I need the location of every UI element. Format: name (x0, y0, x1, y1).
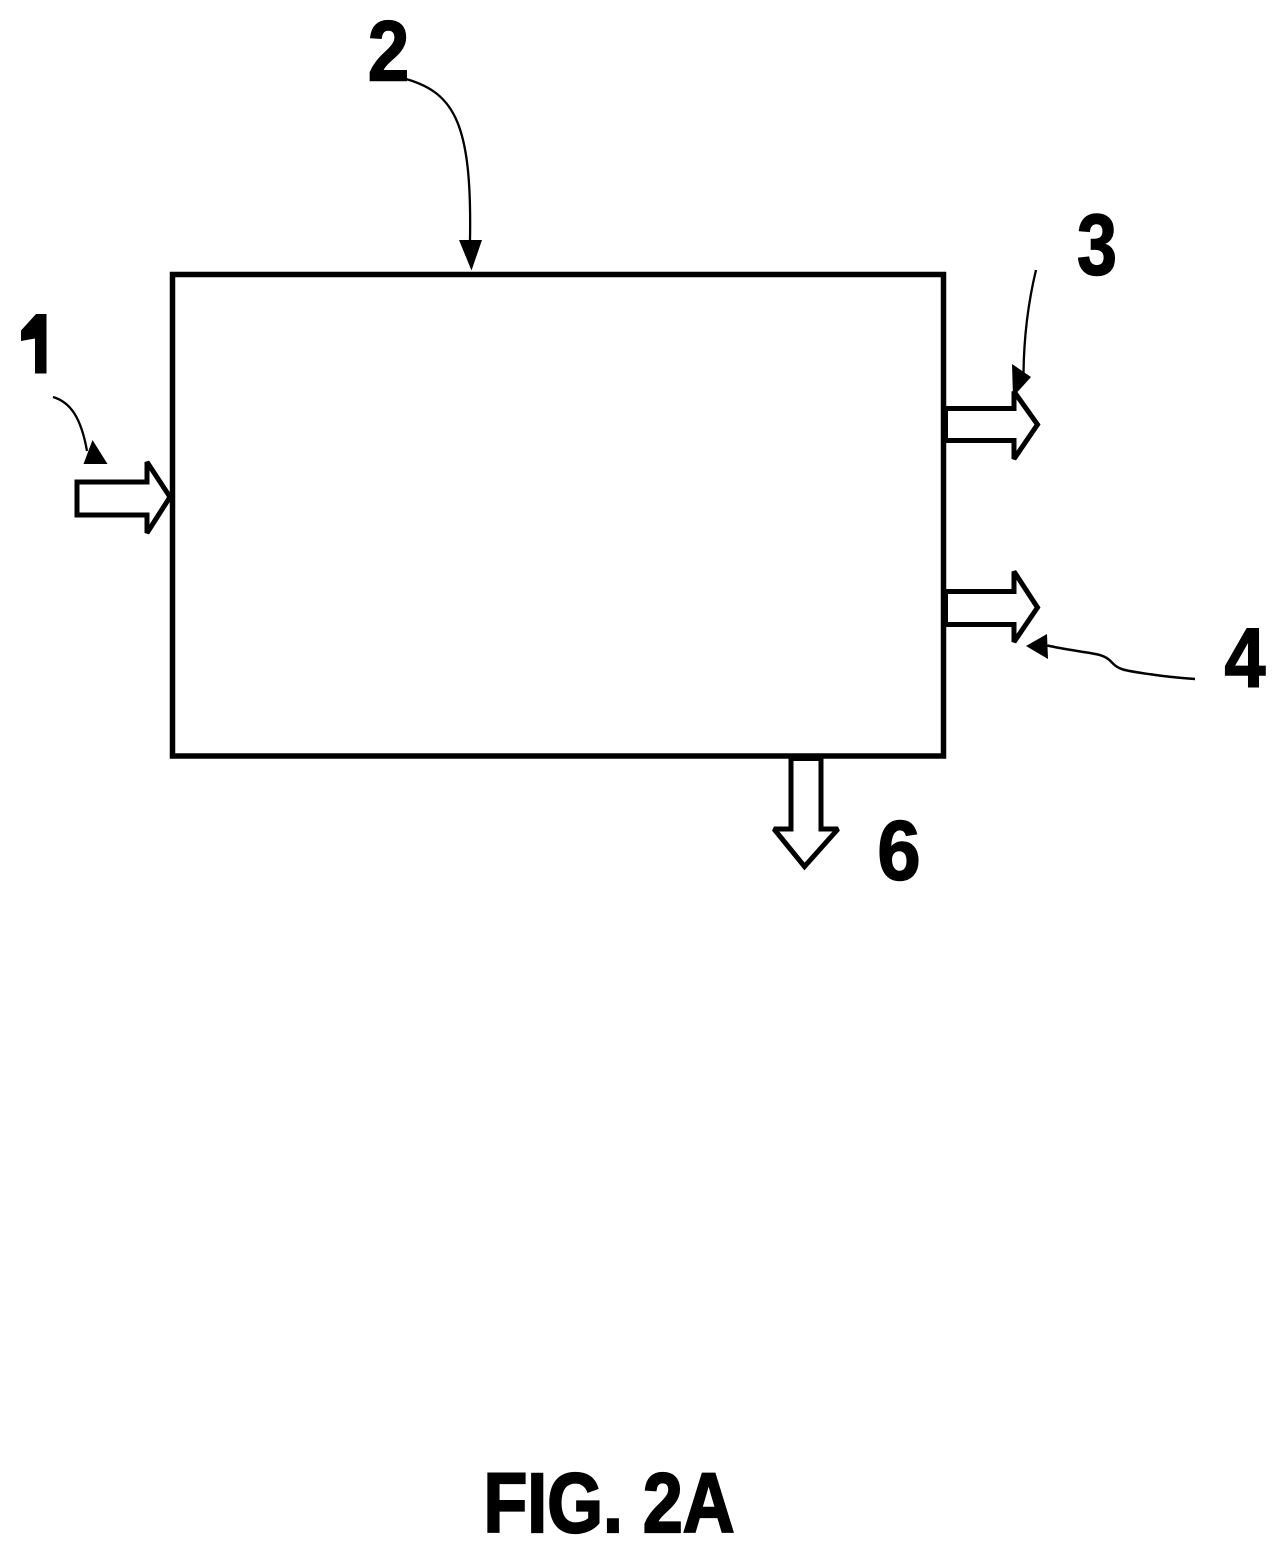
arrowhead of leader 3 (1012, 364, 1031, 397)
label 1 (21, 314, 47, 374)
arrowhead of leader 4 (1026, 634, 1048, 659)
leader line from label 2 (406, 79, 470, 240)
svg-text:3: 3 (1077, 198, 1117, 294)
svg-text:2: 2 (368, 5, 410, 100)
input block arrow 1 (77, 462, 170, 533)
down block arrow 6 (774, 759, 838, 867)
arrowhead of leader 1 (84, 440, 108, 464)
leader line from label 3 (1024, 270, 1037, 373)
box 2 (process block) (173, 275, 944, 757)
output block arrow 4 (946, 572, 1038, 643)
leader line from label 1 (53, 397, 87, 451)
output block arrow 3 (946, 392, 1038, 460)
leader line from label 4 (1048, 646, 1196, 680)
svg-text:6: 6 (877, 804, 921, 898)
svg-text:4: 4 (1225, 611, 1266, 705)
svg-text:FIG. 2A: FIG. 2A (484, 1456, 735, 1550)
arrowhead of leader 2 (459, 240, 482, 271)
